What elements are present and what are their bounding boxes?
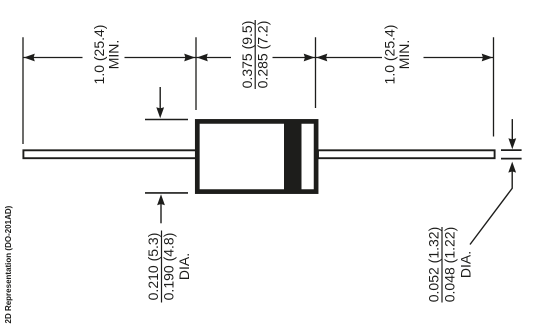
svg-text:MIN.: MIN.: [396, 40, 412, 70]
svg-text:DIA.: DIA.: [176, 253, 192, 280]
svg-text:0.375 (9.5): 0.375 (9.5): [239, 21, 255, 89]
svg-text:0.190 (4.8): 0.190 (4.8): [161, 233, 177, 301]
svg-text:0.210 (5.3): 0.210 (5.3): [145, 233, 161, 301]
svg-text:0.048 (1.22): 0.048 (1.22): [442, 227, 458, 303]
svg-text:2D Representation (DO-201AD): 2D Representation (DO-201AD): [4, 205, 13, 323]
svg-text:MIN.: MIN.: [106, 40, 122, 70]
svg-text:0.285 (7.2): 0.285 (7.2): [254, 21, 270, 89]
svg-text:0.052 (1.32): 0.052 (1.32): [426, 227, 442, 303]
svg-text:DIA.: DIA.: [458, 251, 474, 278]
